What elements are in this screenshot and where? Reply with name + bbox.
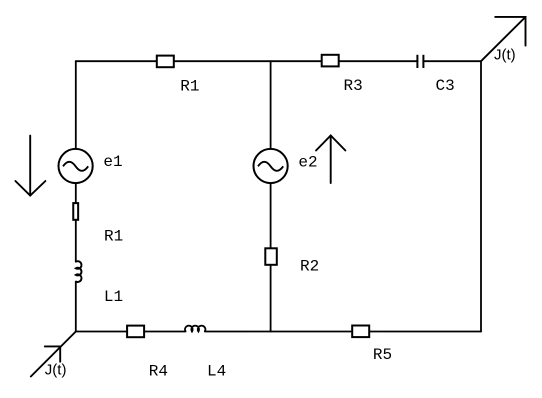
svg-text:R5: R5 xyxy=(373,346,392,364)
svg-text:C3: C3 xyxy=(436,77,455,95)
svg-text:R2: R2 xyxy=(300,258,319,276)
resistor R1 (left branch, vertical) xyxy=(73,203,78,220)
wire middle branch xyxy=(270,61,272,331)
arrow J(t) bottom-left (diagonal with head pointing up-right) xyxy=(31,332,76,377)
resistor R5 xyxy=(352,326,369,338)
sine of e2 xyxy=(258,162,283,171)
resistor R4 xyxy=(127,326,144,338)
svg-text:J(t): J(t) xyxy=(494,46,516,63)
svg-text:e1: e1 xyxy=(103,153,122,171)
svg-text:e2: e2 xyxy=(298,154,317,172)
resistor R3 xyxy=(322,55,339,67)
svg-text:R4: R4 xyxy=(149,362,168,380)
wire L4 to bottom-right corner xyxy=(205,331,481,333)
capacitor C3 xyxy=(417,55,423,68)
svg-text:J(t): J(t) xyxy=(45,362,67,379)
wire C3 right plate to top-right corner xyxy=(423,60,481,62)
svg-text:R1: R1 xyxy=(104,228,123,246)
inductor L1 (vertical coil) xyxy=(76,261,82,282)
sine of e1 xyxy=(63,162,88,171)
inductor L4 (horizontal coil) xyxy=(185,326,205,332)
arrow (e2 direction, pointing up) xyxy=(316,136,345,184)
wire left branch upper (corner to L1 top) xyxy=(75,61,77,262)
source e1 xyxy=(59,149,93,183)
wire top-left to C3 left plate xyxy=(76,60,418,62)
resistor R2 (vertical) xyxy=(265,248,277,264)
svg-text:L1: L1 xyxy=(104,288,123,306)
arrow J(t) top-right (pointing up-right out of corner) xyxy=(481,17,526,61)
source e2 xyxy=(254,149,288,183)
arrow (current direction, left side, pointing down) xyxy=(15,136,45,196)
svg-text:R1: R1 xyxy=(180,77,199,95)
wire left branch lower (L1 bottom to corner) xyxy=(75,282,77,332)
wire bottom-left corner to L4 xyxy=(76,331,186,333)
svg-text:L4: L4 xyxy=(207,362,226,380)
svg-text:R3: R3 xyxy=(344,77,363,95)
resistor R1 (top) xyxy=(157,56,174,68)
wire right branch xyxy=(480,61,482,331)
